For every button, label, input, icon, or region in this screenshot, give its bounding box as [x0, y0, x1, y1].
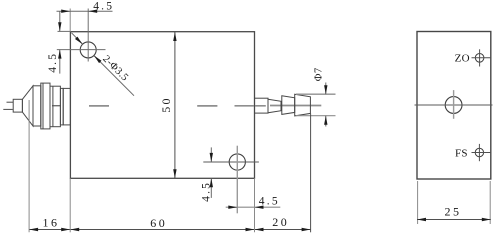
- phi7 bottom extension line: [296, 115, 336, 117]
- dimension 4.5 bottom-horizontal: line: [226, 206, 281, 208]
- dimension 50: line: [174, 32, 176, 178]
- side view middle circle vertical centerline: [453, 90, 455, 119]
- svg-text:4.5: 4.5: [200, 181, 212, 202]
- dim 25 right arrow: [482, 218, 491, 221]
- svg-text:60: 60: [150, 216, 167, 230]
- connector prong wires: [3, 102, 13, 109]
- side view middle circle horizontal centerline: [415, 104, 493, 106]
- dimension 4.5 top: right arrow: [88, 10, 97, 13]
- leader 2-phi3.5: lower arrow: [94, 56, 102, 64]
- dim 60 left arrow: [70, 228, 79, 231]
- leader 2-phi3.5: upper arrow: [75, 37, 83, 45]
- ZO crosshair vertical: [479, 49, 481, 66]
- dim 60 right arrow: [246, 228, 255, 231]
- phi7 top extension line: [296, 93, 336, 95]
- svg-text:25: 25: [445, 204, 462, 218]
- dimension 4.5 bottom-vertical: line upper: [210, 147, 212, 162]
- main body rectangle: [70, 32, 254, 179]
- dimension 50: bottom arrow: [173, 169, 176, 178]
- nozzle barb A: [282, 96, 295, 115]
- extension line body right edge: [254, 178, 256, 232]
- nozzle tube rectangle: [255, 98, 269, 113]
- phi7 up arrow: [324, 116, 327, 125]
- svg-text:20: 20: [272, 215, 289, 229]
- FS crosshair horizontal: [472, 152, 491, 154]
- FS adjust circle: [475, 148, 483, 156]
- svg-text:ZO: ZO: [455, 52, 470, 64]
- body left edge extension up: [69, 9, 71, 32]
- extension line nozzle tip: [310, 114, 312, 233]
- bottom dimension line: [29, 229, 311, 231]
- svg-text:4.5: 4.5: [259, 195, 280, 207]
- ZO adjust circle: [475, 54, 484, 63]
- nozzle barb B: [295, 94, 311, 116]
- dim 20 right arrow: [302, 228, 311, 231]
- dimension 4.5 bottom-horizontal: right-pointing arrow: [228, 206, 237, 209]
- dimension 4.5 bottom-vertical: down arrow: [210, 153, 213, 162]
- hole top-left circle: [80, 42, 96, 58]
- body horizontal centerline: [52, 105, 61, 107]
- dim 25 extension right: [489, 181, 491, 224]
- connector band 3: [50, 86, 60, 127]
- hole vertical centerline: [87, 9, 89, 62]
- svg-text:4.5: 4.5: [47, 52, 59, 73]
- FS crosshair vertical: [478, 144, 480, 161]
- extension line connector left: [28, 100, 30, 232]
- connector band 1: [33, 86, 41, 126]
- svg-text:50: 50: [159, 96, 173, 112]
- dimension 4.5 left: line lower: [59, 50, 61, 74]
- dimension 4.5 left: up arrow: [58, 50, 61, 59]
- svg-text:FS: FS: [455, 147, 468, 159]
- dimension 4.5 bottom-horizontal: left-pointing arrow: [255, 206, 264, 209]
- connector cone: [22, 86, 33, 126]
- dim 20 left arrow: [255, 228, 264, 231]
- dimension 4.5 left: line upper: [59, 11, 61, 31]
- dim 25 extension left: [417, 181, 419, 224]
- connector band 5: [63, 88, 70, 125]
- dim 25 left arrow: [417, 218, 426, 221]
- dim 16 left arrow: [29, 228, 38, 231]
- bottom hole circle: [229, 154, 245, 170]
- dimension 4.5 top: left arrow: [61, 10, 70, 13]
- phi7 down arrow: [324, 85, 327, 94]
- hole horizontal centerline: [57, 49, 106, 51]
- nozzle taper: [268, 99, 281, 113]
- connector band 3 inner line: [52, 86, 54, 127]
- dimension 4.5 bottom-vertical: up arrow: [210, 178, 213, 187]
- svg-text:Φ7: Φ7: [314, 68, 325, 82]
- ZO crosshair horizontal: [472, 57, 491, 59]
- leader 2-phi3.5: upper segment: [72, 33, 83, 44]
- svg-text:4.5: 4.5: [93, 1, 114, 13]
- extension line body left edge: [69, 178, 71, 232]
- connector band 2 (tall): [41, 83, 50, 129]
- dimension 4.5 top: line: [57, 10, 113, 12]
- dimension 4.5 left: down arrow: [58, 22, 61, 31]
- connector band 4: [60, 88, 63, 125]
- side view middle circle: [445, 97, 462, 114]
- svg-text:16: 16: [43, 215, 60, 229]
- phi7 dimension line lower: [325, 116, 327, 127]
- connector cable stub: [13, 99, 22, 112]
- dimension 4.5 bottom-vertical: line lower: [210, 178, 212, 198]
- dim 16 right arrow: [61, 228, 70, 231]
- phi7 dimension line upper: [325, 83, 327, 95]
- dim 25 line: [417, 219, 491, 221]
- connector band 2 inner line: [42, 83, 44, 129]
- bottom hole vertical centerline: [236, 146, 238, 214]
- top edge extension left: [58, 30, 71, 32]
- bottom hole horizontal centerline: [203, 161, 259, 163]
- dimension 50: top arrow: [173, 32, 176, 41]
- svg-text:2-Φ3.5: 2-Φ3.5: [100, 54, 130, 84]
- leader 2-phi3.5: lower segment: [94, 56, 134, 96]
- side view rectangle: [417, 32, 491, 180]
